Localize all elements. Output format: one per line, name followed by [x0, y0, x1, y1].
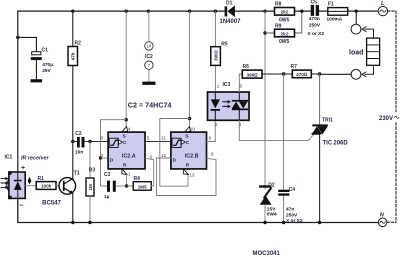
- capacitor C3: [101, 172, 125, 200]
- svg-text:C2: C2: [75, 131, 82, 137]
- wire R3 bottom: [89, 196, 91, 223]
- transistor T1: [42, 171, 80, 207]
- wire R6 to R7: [262, 73, 292, 75]
- svg-text:R9: R9: [275, 24, 282, 30]
- svg-text:L: L: [381, 1, 385, 7]
- svg-text:load: load: [349, 49, 363, 56]
- svg-text:0W5: 0W5: [279, 39, 290, 45]
- resistor R5: [211, 42, 228, 66]
- svg-text:R5: R5: [221, 42, 228, 48]
- svg-text:4: 4: [128, 126, 131, 131]
- resistor R8: [275, 1, 295, 23]
- capacitor C1: [31, 48, 53, 80]
- svg-text:C5: C5: [311, 0, 318, 5]
- ground (C1): [31, 79, 43, 82]
- wire S1 pullup from rail: [125, 11, 127, 126]
- node C2 left: [71, 140, 74, 143]
- svg-text:TIC 206D: TIC 206D: [323, 141, 349, 147]
- svg-text:X or X2: X or X2: [308, 31, 325, 37]
- svg-text:IR receiver: IR receiver: [21, 156, 49, 162]
- svg-text:12: 12: [161, 153, 167, 158]
- wire upper arrow to load: [362, 27, 374, 38]
- wire Q1 (pin5) to clock pin 11: [145, 141, 171, 143]
- fuse F1: [327, 1, 348, 22]
- node D2 at rail: [263, 221, 266, 224]
- svg-text:−: −: [19, 203, 23, 210]
- svg-text:R8: R8: [275, 1, 282, 7]
- svg-text:230V: 230V: [379, 116, 393, 122]
- node rail S1 tap: [125, 9, 128, 12]
- wire R2 bottom to T1 collector: [72, 66, 74, 179]
- wire top supply rail: [18, 10, 378, 12]
- svg-text:25V: 25V: [42, 68, 51, 74]
- node S2: [188, 117, 191, 120]
- IR light arrows: [1, 179, 6, 188]
- triac TRI1: [312, 74, 349, 223]
- svg-text:C: C: [123, 140, 127, 146]
- svg-text:470n: 470n: [309, 16, 320, 22]
- svg-text:390Ω: 390Ω: [213, 49, 218, 61]
- svg-text:C2 = 74HC74: C2 = 74HC74: [128, 101, 172, 110]
- node T1 emitter at rail: [71, 221, 74, 224]
- svg-text:C1: C1: [42, 48, 49, 54]
- node R8/R9 left: [263, 9, 266, 12]
- svg-text:R2: R2: [75, 41, 82, 47]
- svg-text:R: R: [186, 162, 190, 168]
- svg-text:250V: 250V: [286, 212, 298, 218]
- svg-text:R: R: [123, 162, 127, 168]
- svg-text:T1: T1: [74, 171, 80, 177]
- node D1/R5 tap: [214, 9, 217, 12]
- node R3 top: [88, 140, 91, 143]
- svg-text:IC2.B: IC2.B: [185, 153, 199, 159]
- svg-text:2k2: 2k2: [280, 10, 288, 16]
- IC2 power pins: [145, 11, 153, 81]
- svg-text:2: 2: [215, 122, 218, 127]
- svg-text:9: 9: [209, 136, 212, 141]
- wire load bottom to lower terminal: [362, 65, 374, 76]
- node IC2 power tap: [147, 9, 150, 12]
- 230V label: [378, 112, 400, 122]
- zener D2: [259, 182, 277, 222]
- node R8/R9 right: [300, 9, 303, 12]
- AC source L: [378, 1, 387, 16]
- ground (IC2 pin 7): [142, 82, 155, 85]
- wire pin2 stub: [101, 157, 109, 159]
- svg-text:R1: R1: [38, 176, 45, 182]
- resistor R3: [86, 168, 95, 197]
- svg-text:1N4007: 1N4007: [220, 19, 242, 25]
- resistor R2: [68, 41, 81, 66]
- wire left rail down to IC1: [17, 11, 19, 172]
- flip-flop IC2.B: [171, 132, 207, 169]
- svg-text:0W5: 0W5: [279, 17, 290, 23]
- svg-text:D: D: [110, 158, 114, 164]
- wire lower terminal to triac row: [320, 73, 352, 75]
- svg-text:BC547: BC547: [42, 200, 61, 206]
- pin 1 arrow: [122, 169, 127, 174]
- svg-text:100mA: 100mA: [327, 17, 343, 23]
- wire R1 to T1 base: [56, 185, 59, 187]
- svg-text:C3: C3: [104, 172, 111, 178]
- wire mains dashed: [387, 11, 396, 222]
- svg-text:11: 11: [161, 136, 166, 141]
- svg-text:F1: F1: [328, 1, 334, 7]
- svg-text:14: 14: [147, 44, 152, 49]
- wire R6 feed: [239, 74, 242, 92]
- resistor R4: [127, 176, 152, 190]
- svg-text:D: D: [173, 158, 177, 164]
- svg-text:2k2: 2k2: [280, 31, 288, 37]
- resistor R1: [36, 176, 56, 189]
- flip-flop IC2.A: [108, 132, 145, 169]
- node C4 tap: [282, 72, 285, 75]
- node C1 branch: [16, 36, 19, 39]
- capacitor C4: [278, 74, 303, 224]
- svg-text:1: 1: [217, 84, 220, 89]
- node top rail R2: [71, 9, 74, 12]
- wire Q1-bar (pin6) to R4: [145, 158, 154, 185]
- node triac top: [318, 72, 321, 75]
- svg-text:100k: 100k: [41, 184, 52, 189]
- svg-text:C4: C4: [289, 187, 296, 193]
- svg-text:13: 13: [189, 173, 195, 178]
- wire C2 to clock pin 3: [85, 141, 109, 143]
- wire to upper terminal: [355, 11, 357, 24]
- node triac at rail: [318, 221, 321, 224]
- wire bottom common rail: [18, 198, 379, 222]
- svg-text:3: 3: [101, 136, 104, 141]
- svg-text:X or X2: X or X2: [286, 218, 303, 224]
- svg-text:IC2.A: IC2.A: [122, 153, 136, 159]
- svg-text:15V: 15V: [267, 206, 276, 212]
- wire D1/C3 pullup branch: [101, 120, 127, 186]
- wire C1 branch: [18, 37, 37, 51]
- svg-text:IC3: IC3: [223, 82, 231, 88]
- svg-text:1M: 1M: [88, 184, 93, 191]
- pin 10 arrow: [185, 127, 191, 133]
- output marker arrow: [28, 177, 32, 185]
- resistor R6: [242, 64, 262, 78]
- node S1: [125, 118, 128, 121]
- wire Q2 (pin9) to IC3 pin2: [207, 120, 216, 141]
- resistor R7: [291, 64, 312, 78]
- node C4 at rail: [282, 221, 285, 224]
- svg-text:6: 6: [240, 84, 243, 89]
- wire pin13 loop: [160, 119, 190, 187]
- wire IC3 pin4 to triac gate: [239, 120, 313, 140]
- wire R5 vertical: [214, 11, 216, 92]
- svg-text:1: 1: [128, 172, 131, 177]
- svg-text:D1: D1: [226, 0, 233, 6]
- node R9 left: [263, 31, 266, 34]
- svg-text:C: C: [186, 140, 190, 146]
- svg-text:2: 2: [101, 153, 104, 158]
- svg-text:1µ: 1µ: [104, 194, 110, 200]
- svg-text:+: +: [21, 165, 25, 172]
- wire T1 emitter down: [72, 193, 74, 222]
- svg-text:IC1: IC1: [5, 155, 13, 161]
- svg-text:R4: R4: [134, 176, 141, 182]
- svg-text:R6: R6: [243, 64, 250, 70]
- pin 13 arrow: [183, 169, 188, 174]
- wire R9 row: [265, 11, 302, 33]
- svg-text:10: 10: [190, 126, 196, 131]
- svg-text:8: 8: [211, 152, 214, 157]
- wire R3 hang: [89, 142, 91, 179]
- node C3/R4: [125, 184, 128, 187]
- optocoupler IC3: [208, 82, 250, 120]
- svg-text:250V: 250V: [309, 22, 321, 28]
- node rail S2 tap: [188, 9, 191, 12]
- svg-text:470Ω: 470Ω: [296, 72, 308, 77]
- svg-text:R7: R7: [291, 64, 298, 70]
- svg-text:R3: R3: [89, 168, 96, 174]
- capacitor C2: [73, 131, 85, 155]
- capacitor C5: [308, 0, 325, 37]
- wire pin1 to C3/R4 node: [126, 175, 128, 186]
- svg-text:TRI1: TRI1: [322, 118, 333, 124]
- svg-text:0W4: 0W4: [267, 212, 277, 218]
- svg-text:D2: D2: [268, 182, 275, 188]
- node D-input pin2: [99, 156, 102, 159]
- resistor R9: [275, 24, 295, 46]
- load box: [349, 38, 380, 65]
- diode D1: [220, 0, 242, 25]
- svg-text:1M5: 1M5: [138, 185, 147, 190]
- node load tap: [355, 9, 358, 12]
- node R3 at rail: [88, 221, 91, 224]
- svg-text:390Ω: 390Ω: [246, 72, 258, 77]
- terminal upper: [351, 24, 361, 34]
- svg-text:47k: 47k: [71, 52, 77, 60]
- wire zener feed vertical: [264, 11, 266, 189]
- svg-text:5: 5: [147, 136, 150, 141]
- IC1 IR receiver module: [5, 155, 50, 210]
- svg-text:47n: 47n: [286, 207, 294, 213]
- wire R7 to triac node: [311, 73, 319, 75]
- terminal lower: [351, 69, 361, 79]
- wire D2-input feedback (pin 8 to pin 12): [157, 158, 217, 196]
- svg-text:IC2: IC2: [145, 54, 153, 60]
- wire IC1 out to R1: [25, 185, 36, 187]
- AC source N: [378, 213, 387, 227]
- svg-text:470µ: 470µ: [42, 62, 53, 68]
- wire R2 top: [72, 11, 74, 46]
- svg-text:MOC3041: MOC3041: [253, 251, 281, 257]
- svg-text:10n: 10n: [75, 150, 83, 156]
- pin 4 arrow: [122, 127, 128, 133]
- wire S2 pullup from rail: [189, 11, 191, 126]
